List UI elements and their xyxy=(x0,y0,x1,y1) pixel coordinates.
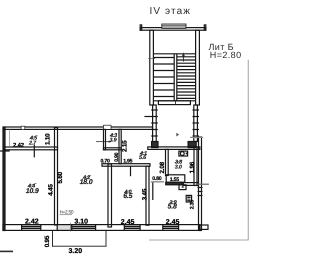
svg-text:2.42: 2.42 xyxy=(13,142,25,149)
svg-text:4.45: 4.45 xyxy=(47,184,54,196)
svg-text:2.45: 2.45 xyxy=(121,219,135,226)
svg-text:3.45: 3.45 xyxy=(141,188,148,200)
svg-text:3.10: 3.10 xyxy=(74,219,88,226)
svg-text:3.9: 3.9 xyxy=(110,138,117,144)
svg-text:0.95: 0.95 xyxy=(44,235,51,247)
svg-text:3.0: 3.0 xyxy=(175,165,182,171)
svg-text:2.7: 2.7 xyxy=(28,141,37,147)
svg-text:1.55: 1.55 xyxy=(170,177,179,183)
svg-text:1.96: 1.96 xyxy=(189,161,196,173)
svg-text:Н=2.80: Н=2.80 xyxy=(210,50,242,60)
svg-text:1.10: 1.10 xyxy=(44,133,51,145)
svg-text:IV этаж: IV этаж xyxy=(150,6,192,17)
svg-text:5.6: 5.6 xyxy=(139,155,147,161)
svg-text:10.9: 10.9 xyxy=(26,188,39,195)
svg-text:0.70: 0.70 xyxy=(101,159,110,165)
svg-text:2.08: 2.08 xyxy=(159,161,166,173)
svg-text:5.8: 5.8 xyxy=(168,204,177,211)
svg-text:2.15: 2.15 xyxy=(122,140,129,152)
svg-text:2.45: 2.45 xyxy=(166,219,180,226)
svg-text:1.95: 1.95 xyxy=(123,159,132,165)
svg-text:h=2.50: h=2.50 xyxy=(60,209,74,214)
svg-text:0.90: 0.90 xyxy=(114,152,120,161)
svg-text:18.0: 18.0 xyxy=(80,179,93,186)
svg-text:6.5: 6.5 xyxy=(123,193,132,200)
svg-text:2.42: 2.42 xyxy=(25,219,39,226)
svg-text:5.60: 5.60 xyxy=(57,171,64,183)
svg-text:2.35: 2.35 xyxy=(190,200,196,209)
svg-text:0.80: 0.80 xyxy=(152,176,161,182)
svg-text:3.20: 3.20 xyxy=(69,248,83,255)
